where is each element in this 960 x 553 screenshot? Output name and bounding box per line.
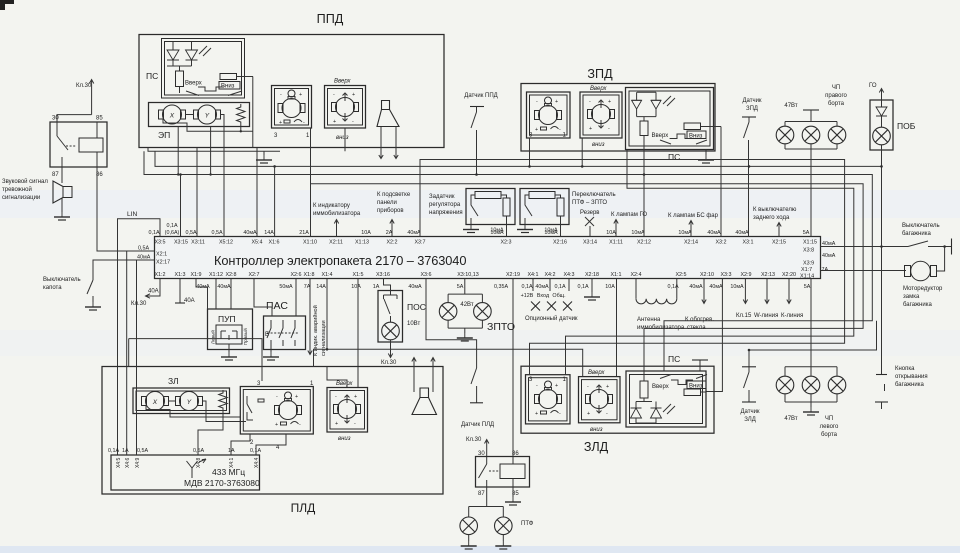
junction dots on buses [179, 165, 883, 351]
svg-text:ППД: ППД [317, 12, 344, 26]
sensor Датчик ПЛД [461, 352, 494, 428]
ground under ПАС [263, 352, 279, 360]
svg-text:X1:11: X1:11 [609, 240, 623, 246]
svg-text:X1:13: X1:13 [355, 240, 369, 246]
svg-text:Вверх: Вверх [590, 86, 607, 92]
wire ЗПД pin3 to bus H1 [528, 138, 531, 168]
ПС diode VD2 with emitter arrows [186, 42, 212, 66]
svg-text:Резерв: Резерв [580, 210, 600, 216]
wire ЗПД window unit to bus H1 [581, 138, 583, 166]
svg-text:К индикатору: К индикатору [313, 203, 350, 209]
ЗЛ motor X [142, 392, 169, 411]
svg-text:Моторедуктор: Моторедуктор [903, 286, 943, 292]
svg-text:+12В: +12В [521, 293, 534, 299]
wire X5:12 from ППД [223, 148, 225, 237]
svg-text:вниз: вниз [338, 436, 351, 442]
svg-text:0,1А: 0,1А [521, 284, 532, 290]
label Задатчик регулятора напряжения [429, 194, 463, 216]
svg-text:+: + [354, 394, 357, 400]
svg-text:10А: 10А [606, 230, 616, 236]
svg-text:X2:9: X2:9 [740, 272, 751, 278]
svg-text:(0,6А): (0,6А) [165, 230, 180, 236]
ЗЛД ПС switch contacts [660, 375, 707, 385]
wire X1:8 to hazard indicator [308, 279, 327, 357]
svg-text:Антенна: Антенна [637, 317, 661, 323]
svg-text:Левый: Левый [210, 330, 216, 344]
arrow К подсветке панели приборов from X2:2 [377, 192, 411, 237]
svg-text:50мА: 50мА [279, 284, 293, 290]
svg-text:40мА: 40мА [408, 284, 422, 290]
wire X1:6 from bus H1 [274, 166, 276, 236]
svg-text:21А: 21А [299, 230, 309, 236]
relay K1 coil [79, 122, 103, 167]
svg-text:-: - [354, 421, 356, 427]
svg-text:X2:15: X2:15 [772, 240, 786, 246]
arrow Кл.15 from X2:9 [736, 279, 752, 320]
ЗЛ motor Y [176, 392, 203, 411]
ЗПД ПС diode VD1 [632, 92, 656, 116]
svg-text:ЗПТО: ЗПТО [487, 321, 515, 333]
controller bottom pin ratings [196, 284, 810, 290]
bus H4 ЗПД ПС to ЗЛД pin1 [566, 150, 854, 375]
svg-text:борта: борта [828, 101, 845, 107]
svg-text:Правый: Правый [242, 328, 248, 345]
ЗПД ПС diode VD2 + arrows [651, 92, 675, 116]
ПЛД lock switch part [247, 396, 264, 420]
svg-text:85: 85 [96, 116, 103, 122]
svg-text:-: - [352, 119, 354, 125]
МДВ pin labels vertical [116, 457, 260, 468]
svg-text:регулятора: регулятора [429, 202, 461, 208]
ground under hood switch [85, 302, 101, 310]
svg-text:X3:14: X3:14 [583, 240, 597, 246]
svg-text:X4:5: X4:5 [116, 457, 122, 468]
svg-text:47Вт: 47Вт [784, 416, 797, 422]
svg-text:X1:12: X1:12 [209, 272, 223, 278]
Резерв X mark on X3:14 [580, 210, 600, 237]
svg-text:W-линия: W-линия [754, 313, 778, 319]
ground under ПУП [221, 352, 237, 360]
lamp HL3 right board [828, 126, 846, 144]
svg-text:ЗПД: ЗПД [587, 67, 613, 81]
ЗЛ resistor zigzag [219, 390, 228, 411]
svg-text:левого: левого [820, 424, 839, 430]
relay K2 contact [479, 457, 500, 488]
svg-text:30: 30 [52, 116, 59, 122]
optional sensor pins X4:1 X4:2 X4:3 [521, 279, 578, 323]
svg-text:ЧП: ЧП [832, 85, 840, 91]
svg-text:-: - [587, 384, 589, 390]
controller top pin labels [154, 240, 817, 246]
svg-text:+: + [555, 99, 558, 105]
wire X1:4 down to junction [326, 279, 328, 350]
wires X2:7 X2:6 to ПАС [254, 279, 296, 317]
bus H2 to ЗЛД ПС [144, 151, 872, 371]
svg-text:X2:16: X2:16 [553, 240, 567, 246]
svg-text:X2:3: X2:3 [500, 240, 511, 246]
svg-text:-: - [335, 394, 337, 400]
sensor Датчик ППД [464, 93, 497, 175]
svg-text:10мА: 10мА [730, 284, 744, 290]
lamps ЧП левого борта group [784, 279, 839, 439]
svg-text:X2:6: X2:6 [290, 272, 301, 278]
controller bottom pin labels [154, 272, 796, 278]
svg-text:Задатчик: Задатчик [429, 194, 455, 200]
svg-text:X2:13: X2:13 [761, 272, 775, 278]
svg-text:X2:10: X2:10 [700, 272, 714, 278]
svg-text:0,1А: 0,1А [577, 284, 588, 290]
svg-text:86: 86 [512, 451, 519, 457]
ЗПД ПС ground [698, 155, 714, 163]
wire X1:2 to Кл.30 arrow [131, 279, 160, 308]
svg-text:Датчик: Датчик [740, 409, 759, 415]
svg-text:X2:5: X2:5 [675, 272, 686, 278]
svg-text:10мА: 10мА [490, 228, 504, 234]
svg-text:ЭП: ЭП [158, 130, 170, 140]
МДВ wires up [127, 251, 286, 455]
svg-text:X5:12: X5:12 [219, 240, 233, 246]
svg-text:-: - [559, 411, 561, 417]
svg-text:+: + [555, 383, 558, 389]
wire ЭП motor X drop [177, 127, 179, 175]
ПОС lamp [382, 322, 400, 340]
svg-text:5А: 5А [803, 230, 810, 236]
ground under horn [54, 212, 70, 220]
ЭП internal wires [163, 77, 253, 237]
svg-text:X3:1: X3:1 [742, 240, 753, 246]
svg-text:К обогрев.: К обогрев. [685, 317, 714, 323]
svg-text:борта: борта [821, 432, 838, 438]
relay K1 contact blade [57, 122, 76, 167]
svg-text:Выключатель: Выключатель [902, 223, 940, 229]
svg-text:40мА: 40мА [689, 284, 703, 290]
ПАС box (alarm switch) [264, 300, 306, 350]
ground under setter box 2 [517, 225, 533, 233]
svg-text:ПАС: ПАС [266, 300, 288, 312]
svg-text:-: - [333, 92, 335, 98]
ПОС box (interior light switch) [378, 291, 426, 343]
wire X5:4 from ППД [256, 148, 258, 237]
svg-text:напряжения: напряжения [429, 210, 463, 216]
svg-text:ПОС: ПОС [407, 302, 426, 312]
ground on relay K2 pin 85 [505, 487, 521, 505]
ground under setter box 1 [463, 225, 479, 233]
svg-text:X3:9: X3:9 [803, 261, 814, 267]
wires X1:12 X2:8 to ПУП [196, 279, 231, 310]
svg-text:X1:7: X1:7 [801, 267, 812, 273]
ЭП motor X [159, 105, 186, 124]
svg-text:сигнализации: сигнализации [321, 320, 327, 356]
ЗПТО lamps pair [448, 279, 515, 334]
svg-text:ПС: ПС [668, 354, 680, 364]
svg-text:ЗЛ: ЗЛ [168, 376, 179, 386]
wire X3:15 from bus H2 [180, 175, 182, 237]
wire X1:15 up to right board lamps [810, 149, 812, 237]
ЗПД mirror ПС box [626, 88, 714, 163]
svg-text:X3:10,13: X3:10,13 [457, 272, 479, 278]
arrow К выключателю заднего хода from X2:15 [753, 207, 797, 237]
svg-text:ЗПД: ЗПД [746, 106, 758, 112]
relay K1 (alarm horn) box [50, 116, 107, 179]
ЗПД ПС switch contacts [660, 134, 707, 144]
svg-text:Вход: Вход [537, 293, 550, 299]
wire X1:1 down to ЗЛД window motor [616, 279, 618, 377]
svg-text:X4:6: X4:6 [125, 457, 131, 468]
wire X1:14 down to left board lamps [810, 279, 812, 367]
svg-text:X3:7: X3:7 [414, 240, 425, 246]
svg-text:40А: 40А [184, 298, 195, 304]
svg-text:ЧП: ЧП [825, 416, 833, 422]
junction Датчик ППД on bus H2 [475, 173, 478, 176]
lamp HL1 right board [776, 126, 794, 144]
svg-text:Контроллер электропакета 2170: Контроллер электропакета 2170 – 3763040 [214, 253, 466, 268]
svg-text:+: + [535, 127, 538, 133]
block ЗЛД outer box [521, 366, 714, 454]
lamp HL5 left board [802, 376, 820, 394]
ЗЛ internal wires [146, 401, 246, 422]
svg-text:Вверх: Вверх [334, 79, 351, 85]
svg-text:40мА: 40мА [217, 284, 231, 290]
svg-text:0,5А: 0,5А [211, 230, 222, 236]
svg-text:40мА: 40мА [735, 230, 749, 236]
Кл.30 feed arrow [57, 80, 94, 123]
ground under ЗПТО [457, 333, 473, 341]
svg-text:X1:4: X1:4 [321, 272, 332, 278]
svg-text:87: 87 [478, 491, 485, 497]
controller right pins [800, 241, 836, 280]
ЭП resistor zigzag [237, 104, 246, 125]
trunk switch Выключатель багажника [821, 223, 952, 255]
svg-text:10мА: 10мА [678, 230, 692, 236]
sensor Датчик ЗЛД [740, 350, 759, 423]
wire L0 ППД bottom rail [148, 148, 280, 152]
wire X2:3 from setter box1 [506, 225, 508, 237]
svg-text:капота: капота [43, 285, 62, 291]
svg-text:МДВ 2170-3763080: МДВ 2170-3763080 [184, 478, 260, 488]
label Переключатель ПТФ-ЗПТО [572, 192, 616, 206]
label Звуковой сигнал [2, 178, 48, 201]
controller left pins X2:1 X2:17 [137, 246, 170, 266]
ПОБ box with diode and lamp [870, 100, 916, 150]
МДВ antenna symbol [187, 459, 207, 478]
svg-text:Датчик ППД: Датчик ППД [464, 93, 497, 99]
arrow К индикатору иммобилизатора from X2:11 [313, 203, 361, 237]
bus H3 to ЗЛД ПС [311, 128, 864, 371]
svg-text:X1:9: X1:9 [190, 272, 201, 278]
svg-text:47Вт: 47Вт [784, 103, 797, 109]
svg-text:приборов: приборов [377, 208, 404, 214]
wire X3:3 down to ЗЛД ПС [706, 279, 722, 392]
controller box U1 Контроллер электропакета 2170-3763040 [155, 237, 821, 279]
lamp ПТФ 2 [495, 517, 513, 535]
svg-text:правого: правого [825, 93, 847, 99]
ПС switch contacts [186, 87, 242, 96]
ЭП motor Y [194, 105, 221, 124]
ЗПД window motor box [580, 86, 622, 148]
ППД speaker feed arrows [379, 127, 398, 159]
svg-text:ПС: ПС [146, 71, 158, 81]
svg-text:заднего хода: заднего хода [753, 215, 790, 221]
block ППД outer box [139, 12, 444, 148]
ППД speaker [377, 101, 399, 127]
svg-text:X3:8: X3:8 [803, 248, 814, 254]
svg-text:X3:6: X3:6 [420, 272, 431, 278]
wire ППД window motor drop [344, 128, 346, 151]
svg-text:X3:3: X3:3 [720, 272, 731, 278]
ЗЛД mirror ПС box [626, 354, 706, 427]
arrow К-линия from X2:20 [781, 279, 803, 320]
scan corner mark [0, 0, 14, 10]
ПТФ lamps [469, 487, 534, 541]
svg-text:сигнализации: сигнализации [2, 195, 40, 201]
svg-text:X3:15: X3:15 [174, 240, 188, 246]
relay K2 (ПТФ) box [476, 451, 530, 497]
svg-text:40мА: 40мА [243, 230, 257, 236]
ППД window motor box (Вверх/вниз) [325, 79, 366, 142]
svg-text:X3:11: X3:11 [191, 240, 205, 246]
МДВ pin ratings [108, 448, 261, 454]
ЗПД ПС resistor vertical + Вверх [637, 117, 669, 150]
svg-text:-: - [606, 411, 608, 417]
svg-text:LIN: LIN [127, 211, 137, 218]
block ЗПД outer box [521, 67, 715, 151]
svg-text:X2:1: X2:1 [156, 252, 167, 258]
svg-text:X: X [169, 113, 175, 120]
svg-text:0,1А: 0,1А [554, 284, 565, 290]
svg-text:+: + [295, 394, 298, 400]
svg-text:X1:15: X1:15 [803, 240, 817, 246]
sensor Датчик ЗПД [742, 98, 762, 237]
svg-text:40А: 40А [148, 289, 159, 295]
ground under left board lamps [803, 407, 819, 415]
ПЛД window motor box [327, 381, 368, 442]
wire ПОБ down to bus [881, 145, 883, 167]
ППД lock motor [278, 90, 305, 126]
svg-text:X4:2: X4:2 [544, 272, 555, 278]
svg-text:Кл.30: Кл.30 [131, 301, 147, 307]
svg-text:-: - [536, 99, 538, 105]
svg-text:К-линия: К-линия [781, 313, 803, 319]
svg-text:10А: 10А [361, 230, 371, 236]
svg-text:1А: 1А [122, 448, 129, 454]
svg-text:вниз: вниз [592, 142, 605, 148]
wire ПЛД pin1 to ЗЛД window unit [314, 348, 583, 377]
svg-text:Кл.15: Кл.15 [736, 313, 752, 319]
wire X2:19 down to relay [512, 279, 514, 457]
svg-text:панели: панели [377, 200, 397, 206]
svg-text:+: + [279, 120, 282, 126]
svg-text:К индик. аварийной: К индик. аварийной [312, 305, 319, 356]
svg-text:30: 30 [478, 451, 485, 457]
svg-text:X4:1: X4:1 [527, 272, 538, 278]
svg-text:Вверх: Вверх [652, 384, 669, 390]
svg-text:0,5А: 0,5А [193, 448, 204, 454]
lamps ЧП правого борта group [784, 85, 847, 237]
svg-text:X2:11: X2:11 [329, 240, 343, 246]
svg-text:40мА: 40мА [707, 230, 721, 236]
svg-text:Вниз: Вниз [689, 384, 703, 390]
ЗЛД ПС resistor horizontal + Вниз [684, 381, 706, 396]
svg-text:Кл.30: Кл.30 [466, 437, 482, 443]
wire X2:17 to hood switch [93, 260, 155, 276]
svg-text:X4:4: X4:4 [254, 457, 260, 468]
svg-text:вниз: вниз [336, 135, 349, 141]
svg-text:5А: 5А [804, 284, 811, 290]
svg-text:+: + [606, 384, 609, 390]
svg-text:X2:4: X2:4 [630, 272, 641, 278]
wire X3:16 to ПОС [384, 279, 391, 291]
ПЛД lock motor [275, 392, 302, 428]
svg-text:X1:2: X1:2 [154, 272, 165, 278]
ПЛД window lift ЗЛ box [133, 376, 230, 414]
svg-text:14А: 14А [264, 230, 274, 236]
voltage regulator setter box 1 [466, 189, 515, 237]
svg-text:ГО: ГО [869, 83, 877, 89]
svg-text:Кнопка: Кнопка [895, 366, 915, 372]
ЗЛД ПС diode VD2 + arrows [636, 402, 675, 424]
svg-text:Датчик ПЛД: Датчик ПЛД [461, 422, 494, 428]
svg-text:X1:14: X1:14 [800, 274, 814, 280]
svg-text:Звуковой сигнал: Звуковой сигнал [2, 178, 48, 185]
ППД mirror unit ПС box [146, 39, 245, 99]
trunk lock motor Моторедуктор замка багажника [821, 247, 945, 309]
ПОБ lamp [873, 127, 891, 145]
svg-text:X4:3: X4:3 [563, 272, 574, 278]
svg-text:42Вт: 42Вт [460, 302, 473, 308]
ПС diode VD1 [167, 42, 179, 66]
svg-text:0,1А: 0,1А [108, 448, 119, 454]
svg-text:-: - [559, 127, 561, 133]
svg-text:Вверх: Вверх [185, 81, 202, 87]
hood switch (Выключатель капота) [43, 276, 93, 302]
svg-text:ПТФ: ПТФ [521, 521, 534, 527]
svg-text:40мА: 40мА [535, 284, 549, 290]
wire X3:11 from ППД [196, 148, 198, 237]
wire X2:12 to ЗПД ПС [643, 150, 645, 237]
relay K2 feed Кл.30 arrow [466, 437, 489, 457]
svg-text:X4:8: X4:8 [196, 457, 202, 468]
lamp ЗПТО 2 [474, 303, 492, 321]
svg-text:ПЛД: ПЛД [291, 501, 316, 515]
svg-text:-: - [276, 394, 278, 400]
svg-text:0,1А: 0,1А [148, 230, 159, 236]
wire X3:6 to Датчик ПЛД [426, 279, 477, 353]
svg-text:5А: 5А [457, 284, 464, 290]
lamp HL2 right board [802, 126, 820, 144]
svg-text:багажника: багажника [902, 231, 931, 237]
arrow К лампам ГО from X1:11 [611, 212, 647, 237]
svg-text:1А: 1А [373, 284, 380, 290]
svg-text:-: - [303, 120, 305, 126]
svg-text:X2:19: X2:19 [506, 272, 520, 278]
ППД lock motor box [272, 86, 312, 140]
svg-text:Вверх: Вверх [588, 370, 605, 376]
svg-text:+: + [335, 421, 338, 427]
svg-text:К лампам БС фар: К лампам БС фар [668, 213, 719, 219]
svg-text:багажника: багажника [895, 382, 924, 388]
horn speaker (Звуковой сигнал) [53, 167, 72, 212]
svg-text:К лампам ГО: К лампам ГО [611, 212, 647, 218]
svg-text:0,35А: 0,35А [494, 284, 508, 290]
bus H5 X3:7 to ЗЛД pin3 [420, 160, 845, 375]
ППД window lift unit ЭП box [149, 103, 250, 141]
svg-text:Переключатель: Переключатель [572, 192, 616, 198]
svg-text:-: - [608, 126, 610, 132]
ЗЛД ПС resistor vertical + Вверх [640, 371, 669, 402]
ЗЛД lock motor box [526, 375, 571, 424]
svg-text:X2:14: X2:14 [684, 240, 698, 246]
svg-text:X: X [152, 399, 158, 406]
